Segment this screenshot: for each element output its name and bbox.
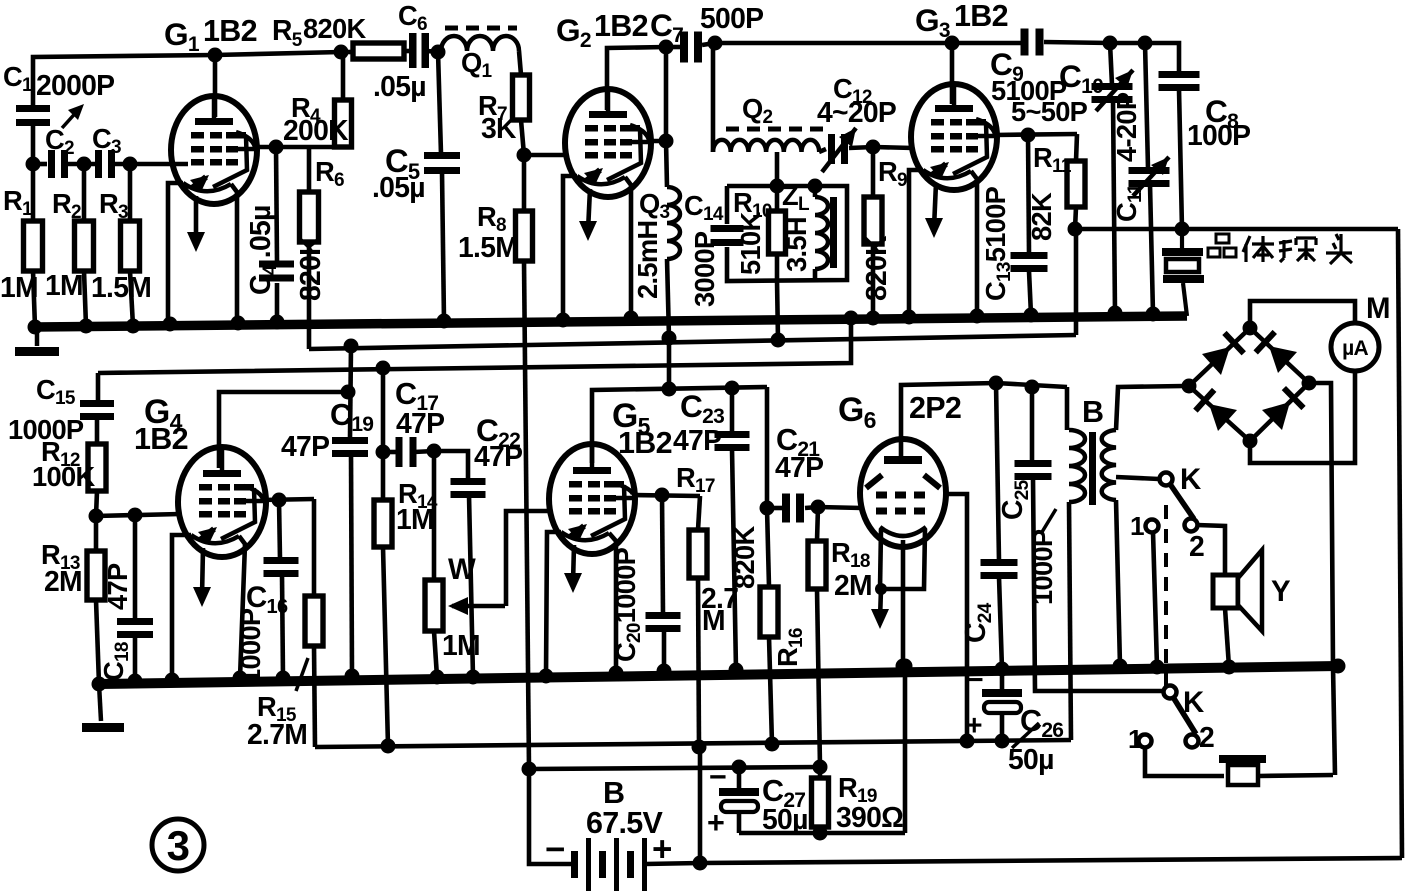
node sec bottom bus <box>1113 659 1128 674</box>
wire Q2 to C12 <box>819 149 826 152</box>
svg-text:3000P: 3000P <box>689 231 720 307</box>
node C7 out <box>708 36 723 51</box>
wire C8 to probe <box>1179 89 1182 229</box>
inductor Q2 <box>713 140 819 152</box>
wire C21 out <box>805 507 818 508</box>
svg-text:1000P: 1000P <box>1027 529 1058 605</box>
wire R14 drop <box>381 368 386 452</box>
wire C2 row <box>33 162 47 167</box>
wire R2 bus <box>84 271 86 326</box>
resistor R11 <box>1067 161 1085 207</box>
resistor R8 <box>516 211 533 261</box>
wire C27 bottom <box>737 812 742 833</box>
svg-text:1M: 1M <box>0 271 38 303</box>
wire plate to R5 <box>215 52 341 55</box>
node C5 bus <box>437 314 452 329</box>
wire C22 bus <box>469 495 473 677</box>
transformer B left bottom <box>1069 502 1071 740</box>
wire drop to earphone <box>1333 666 1335 775</box>
node Q1 junction <box>431 45 446 60</box>
wire G6 grid riser <box>946 494 967 741</box>
wire G6 grid row <box>818 507 862 508</box>
svg-text:1B2: 1B2 <box>134 422 188 456</box>
node C26 bottom <box>995 734 1010 749</box>
wire grid row <box>96 514 180 516</box>
wire G5 plate lead <box>592 387 767 463</box>
svg-text:2P2: 2P2 <box>909 391 961 425</box>
wire battery right lead <box>645 863 700 864</box>
svg-text:3K: 3K <box>481 112 517 144</box>
tube G1 <box>171 96 257 204</box>
node C11 bus <box>1146 307 1161 322</box>
capacitor C22 <box>451 478 486 485</box>
wire G4 fil left <box>172 535 191 681</box>
tube G2 <box>565 89 651 197</box>
node G3 screen <box>1021 128 1036 143</box>
node C10 bus <box>1108 306 1123 321</box>
wire ZL leads <box>813 186 818 197</box>
wire C18 bus <box>133 635 138 681</box>
svg-text:B: B <box>603 776 624 810</box>
node C11 tap <box>1138 36 1153 51</box>
capacitor C19 <box>332 437 368 444</box>
svg-text:4-20P: 4-20P <box>1111 92 1142 162</box>
capacitor C25 <box>1015 460 1052 467</box>
wire Q3 top <box>666 141 667 187</box>
wire C24 lead <box>996 383 999 561</box>
svg-text:B: B <box>1082 395 1103 429</box>
svg-text:K: K <box>1180 463 1201 496</box>
node C17 left <box>376 445 391 460</box>
tube G6 <box>860 439 946 547</box>
svg-text:1M: 1M <box>45 269 83 301</box>
svg-text:C201000P: C201000P <box>610 547 645 662</box>
node G6 grid <box>811 500 826 515</box>
wire G6 cathode lead <box>901 540 906 666</box>
wire R7-R8 <box>521 120 524 155</box>
node lineA C19 <box>344 339 359 354</box>
wire B+ right edge <box>1398 229 1402 858</box>
node bias R14 <box>381 739 396 754</box>
wire K1-1 to bus <box>1153 532 1157 667</box>
node C18 tap <box>128 508 143 523</box>
transformer B right lead <box>1116 386 1184 430</box>
meter M <box>1331 323 1379 371</box>
wire R1 to bus <box>33 271 35 327</box>
wire R5-C6 <box>341 50 355 55</box>
wire C17 wires <box>383 450 398 455</box>
capacitor C18 <box>117 618 153 625</box>
wire C18 lead <box>133 515 138 620</box>
wire K1-2 to speaker <box>1197 525 1225 575</box>
svg-text:1: 1 <box>1128 724 1142 754</box>
diode D3 <box>1209 404 1237 431</box>
svg-text:−: − <box>545 830 565 869</box>
capacitor C14 <box>711 225 744 232</box>
wire C23 bus <box>732 449 736 670</box>
wire Q1 to R7 <box>519 51 521 75</box>
wire bridge right drop <box>1309 383 1333 666</box>
wire R8 top <box>522 155 527 211</box>
wire R14 leads <box>381 452 386 500</box>
node C19 bus <box>345 669 360 684</box>
wire tank to lineA <box>777 280 778 340</box>
node G3 plate <box>945 36 960 51</box>
node bridge top <box>1243 321 1258 336</box>
wire R9 bus <box>871 244 876 318</box>
node G4 fil left bus <box>165 673 180 688</box>
node C10 tap <box>1103 36 1118 51</box>
node W bus <box>430 670 445 685</box>
wire G3 fil arrow <box>934 183 936 228</box>
wire C4 lead <box>276 147 277 261</box>
node C24 bus <box>995 662 1010 677</box>
capacitor C12 <box>828 134 835 164</box>
svg-text:2: 2 <box>1189 530 1204 562</box>
node G6 cathode bus <box>896 659 911 674</box>
svg-text:100P: 100P <box>1187 119 1250 151</box>
capacitor C20 <box>646 612 681 619</box>
capacitor C23 <box>715 431 750 438</box>
node G3 fil right bus <box>970 309 985 324</box>
wire G2 fil left <box>563 176 577 320</box>
resistor R4 <box>335 100 352 147</box>
node G2 fil right bus <box>624 311 639 326</box>
svg-text:820K: 820K <box>294 235 326 301</box>
wire neg line <box>529 767 820 769</box>
wire C4 bus <box>275 283 280 322</box>
wire C15 corner <box>96 373 101 402</box>
wire wiper riser <box>506 511 551 606</box>
wire C20 lead <box>662 495 663 614</box>
svg-text:1000P: 1000P <box>235 608 266 684</box>
node bus left <box>92 677 107 692</box>
node G4 grid <box>89 509 104 524</box>
node G5 fil left bus <box>539 669 554 684</box>
transformer B primary <box>1069 430 1085 502</box>
wire R11 bottom <box>1075 207 1076 229</box>
svg-text:50µ: 50µ <box>762 803 808 835</box>
node G5 plate lineA tie <box>662 382 677 397</box>
wire R18 leads <box>817 507 818 541</box>
wire R12-R13 <box>96 491 97 516</box>
node G4 fil right bus <box>233 671 248 686</box>
wire C26 bottom <box>1000 713 1005 741</box>
diode D1 <box>1202 347 1230 375</box>
wire G5 fil left <box>546 532 561 676</box>
node battery plus <box>693 856 708 871</box>
wire to bus riser <box>903 666 908 833</box>
crystal probe <box>1162 248 1203 256</box>
switch K2 <box>1164 686 1177 699</box>
wire C10 lead <box>1110 43 1112 85</box>
wire C5 top <box>438 52 441 154</box>
inductor Q3 <box>667 187 680 259</box>
wire G5 fil right <box>609 533 616 673</box>
resistor R13 <box>87 551 105 600</box>
wire speaker to bus <box>1225 608 1229 667</box>
svg-text:200K: 200K <box>283 114 349 146</box>
inductor ZL core <box>830 197 837 268</box>
node speaker bus <box>1222 660 1237 675</box>
svg-text:1M: 1M <box>396 503 434 535</box>
wire G2 fil right <box>625 177 631 318</box>
label C25 pointer <box>1042 509 1056 532</box>
wire G3 screen hook <box>976 119 995 134</box>
wire out top row <box>996 383 1067 387</box>
node C20 bus <box>657 664 672 679</box>
node C22 bus <box>466 670 481 685</box>
wire G2 fil arrow <box>588 189 590 231</box>
svg-text:50µ: 50µ <box>1008 743 1054 775</box>
wire C25 lead <box>1030 387 1035 462</box>
svg-text:1B2: 1B2 <box>618 426 672 460</box>
inductor Q1 core <box>445 26 517 31</box>
wire R17 to bias <box>698 578 699 747</box>
wire C22 top <box>434 451 468 480</box>
gang dashed link <box>1164 505 1168 688</box>
wire R15 top <box>312 499 317 596</box>
svg-text:2.5mH: 2.5mH <box>632 221 663 299</box>
node neg R18 R19 <box>813 760 828 775</box>
wire C12 out <box>849 147 874 148</box>
wire sec tap to K <box>1116 477 1159 479</box>
resistor R14 <box>374 500 392 547</box>
wire C23 lead <box>730 388 735 433</box>
wire C10 bus <box>1113 100 1115 313</box>
svg-text:3: 3 <box>167 822 190 869</box>
wire C5 bus <box>442 172 444 321</box>
node G3 fil left bus <box>902 310 917 325</box>
svg-text:820K: 820K <box>303 13 366 44</box>
node G2 screen <box>659 134 674 149</box>
node C13 bus <box>1024 308 1039 323</box>
wire lineB <box>98 318 851 373</box>
capacitor C26 <box>982 689 1022 697</box>
node R4 top <box>334 45 349 60</box>
switch K1 contact 2 <box>1185 519 1198 532</box>
svg-text:47P: 47P <box>673 424 721 456</box>
svg-text:1: 1 <box>1130 511 1144 541</box>
capacitor C2 <box>48 150 55 178</box>
capacitor C3 <box>95 150 102 178</box>
svg-text:C4 .05µ: C4 .05µ <box>244 205 281 295</box>
transformer B core <box>1089 432 1096 505</box>
wire C9 wires <box>952 41 1021 46</box>
svg-text:47P: 47P <box>474 440 522 472</box>
svg-text:5~50P: 5~50P <box>1011 96 1088 127</box>
svg-text:820K: 820K <box>860 235 892 301</box>
node R16 top <box>760 501 775 516</box>
capacitor C13 <box>1011 252 1048 259</box>
wire R3 <box>128 164 133 221</box>
wire R6 to lineA <box>307 242 312 349</box>
svg-text:1M: 1M <box>442 629 480 661</box>
label probe name <box>1216 234 1229 243</box>
svg-text:500P: 500P <box>700 2 763 34</box>
svg-text:+: + <box>707 806 724 840</box>
wire G1 screen hook <box>236 132 255 147</box>
wire top bus G2-G3 <box>715 41 952 46</box>
svg-text:.05µ: .05µ <box>372 171 425 203</box>
potentiometer W <box>425 580 443 631</box>
resistor R5 <box>353 43 404 59</box>
wire C24 bus <box>999 577 1002 669</box>
wire G5 fil arrow <box>573 545 574 583</box>
node C16 tap <box>272 493 287 508</box>
wire R16 top lead <box>765 387 770 508</box>
label C1 pointer <box>62 108 80 128</box>
svg-text:+: + <box>652 830 672 869</box>
node bridge drop bus <box>1331 659 1346 674</box>
node bridge right <box>1302 376 1317 391</box>
wire C11 bus <box>1150 184 1153 314</box>
wire R4 top <box>341 52 346 100</box>
node C20 tap <box>655 488 670 503</box>
svg-text:47P: 47P <box>281 430 329 462</box>
svg-text:−: − <box>967 663 983 695</box>
wire R19 leads <box>818 767 823 778</box>
wire R4 bottom <box>341 145 346 150</box>
svg-text:K: K <box>1183 686 1204 719</box>
svg-text:1B2: 1B2 <box>594 9 648 43</box>
wire G1 fil right <box>231 184 237 323</box>
svg-text:47P: 47P <box>396 407 444 439</box>
capacitor C11 <box>1129 167 1170 174</box>
transformer B left lead <box>1065 387 1070 430</box>
svg-text:W: W <box>448 553 476 586</box>
node C25 top <box>1025 380 1040 395</box>
wire R16 leads <box>767 508 769 587</box>
wire G3 fil left <box>909 170 923 318</box>
resistor R17 <box>689 530 707 578</box>
wire R3 bus <box>130 271 133 326</box>
wire G6 plate lead <box>901 383 996 456</box>
inductor ZL <box>815 197 828 269</box>
node probe top <box>1175 222 1190 237</box>
wire to C8 <box>1145 43 1179 72</box>
svg-text:2M: 2M <box>834 569 872 601</box>
wire W top <box>432 451 437 580</box>
resistor R3 <box>121 221 140 271</box>
node bias G6 grid <box>960 734 975 749</box>
wire G2 plate lead <box>607 47 666 110</box>
node riser bus <box>898 659 913 674</box>
transformer B secondary <box>1102 430 1116 500</box>
node ZL top <box>808 179 823 194</box>
node bias R16 <box>765 737 780 752</box>
wire W bottom <box>434 631 437 677</box>
wire G1 fil arrow <box>194 196 199 242</box>
svg-text:510K: 510K <box>735 212 766 275</box>
svg-text:+: + <box>966 709 982 741</box>
transformer B sec bottom <box>1116 500 1120 666</box>
wire G4 fil arrow <box>202 548 203 597</box>
wire C6 out <box>427 51 440 52</box>
wire G1 fil left <box>168 183 183 324</box>
capacitor C6 <box>409 33 417 68</box>
node C23 tap <box>725 381 740 396</box>
wire R8 long vertical <box>524 261 529 769</box>
switch K1 <box>1160 473 1173 486</box>
node bias R17 <box>692 740 707 755</box>
wire battery left lead <box>529 769 571 864</box>
capacitor C8 <box>1159 71 1200 78</box>
diode D2 <box>1269 346 1297 373</box>
node R7 R8 junction <box>517 148 532 163</box>
svg-text:M: M <box>1366 292 1390 325</box>
wire lineA riser <box>1074 229 1079 335</box>
svg-text:82K: 82K <box>1026 192 1057 241</box>
resistor R2 <box>75 221 94 271</box>
tube G4 <box>178 447 266 557</box>
switch K2 contact 2 <box>1186 735 1199 748</box>
node lineB bus tie <box>844 311 859 326</box>
wire K2-1 to earphone <box>1145 748 1224 776</box>
svg-text:47P: 47P <box>775 451 823 483</box>
node B+ corner <box>1068 222 1083 237</box>
capacitor C15 <box>80 400 114 407</box>
wire R9 top <box>871 147 876 197</box>
figure number 3 <box>152 819 204 871</box>
node tank top tap <box>770 179 785 194</box>
svg-text:1B2: 1B2 <box>954 0 1008 33</box>
svg-text:−: − <box>709 760 726 794</box>
capacitor C24 <box>981 559 1018 566</box>
node Q3 lineA <box>662 331 677 346</box>
wire screen tie <box>664 47 669 141</box>
wire top ground bus <box>35 316 1187 327</box>
wire R13 <box>94 516 99 551</box>
svg-text:4~20P: 4~20P <box>817 96 896 128</box>
node R1 bus <box>28 320 43 335</box>
node G1 plate <box>208 48 223 63</box>
wire C13 bus <box>1029 271 1031 315</box>
svg-text:.05µ: .05µ <box>373 70 426 102</box>
wire lineA to plate <box>667 338 672 389</box>
wire G1 plate lead <box>213 55 218 117</box>
wire C16 lead <box>279 500 280 559</box>
wire C15-R12 <box>95 417 100 444</box>
wire Q3 to lineA <box>667 259 669 338</box>
node C16 bus <box>276 671 291 686</box>
wire R11 top <box>1076 134 1077 161</box>
resistor R12 <box>88 444 106 491</box>
node R2 bus <box>79 319 94 334</box>
wire C11 lead <box>1145 43 1148 168</box>
svg-text:2M: 2M <box>44 565 82 597</box>
capacitor C7 <box>680 32 688 63</box>
svg-text:820K: 820K <box>729 526 760 589</box>
svg-text:Y: Y <box>1271 575 1291 608</box>
wire earphone right <box>1258 775 1333 776</box>
inductor Q1 <box>441 36 519 51</box>
node R9 bus <box>866 311 881 326</box>
wire C10-C11 <box>1110 41 1145 46</box>
wire meter top loop <box>1250 301 1355 328</box>
wire C27 R19 bottom row <box>739 831 905 836</box>
wire R10 bottom <box>775 254 780 280</box>
node G2 plate C7 <box>659 40 674 55</box>
wire bottom ground bus <box>99 666 1338 684</box>
resistor R7 <box>513 75 530 120</box>
node C2-C3 <box>77 157 92 172</box>
node bridge bottom <box>1243 434 1258 449</box>
node R19 bottom <box>813 826 828 841</box>
wire Q2 tap <box>775 152 780 186</box>
node C4 bus <box>270 315 285 330</box>
wire C7 wires <box>666 45 681 50</box>
